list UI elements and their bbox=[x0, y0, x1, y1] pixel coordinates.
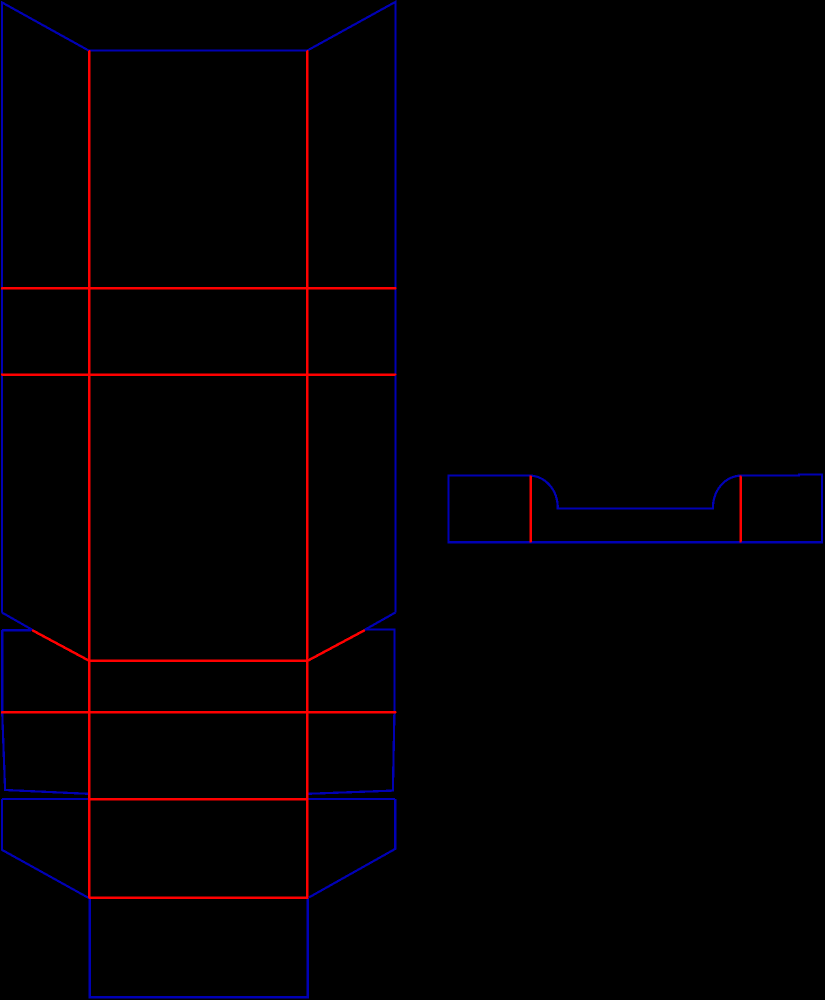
wire: right bevel cut bbox=[364, 613, 395, 631]
wire: tuck crease bbox=[89, 896, 307, 899]
wire: right crease vertical bbox=[306, 51, 309, 897]
wire: bottom panel top crease bbox=[89, 798, 307, 801]
wire: left crease vertical bbox=[88, 51, 91, 897]
wire: crease horizontal 3 bbox=[2, 711, 395, 714]
wire: left panel outer cut (top-left diagonal, left vertical) bbox=[2, 2, 89, 612]
wire: bottom panel top cut right bbox=[307, 798, 395, 800]
wire: top-right diagonal and right vertical cut bbox=[307, 2, 395, 613]
wire: bottom trapezoid left cut bbox=[2, 799, 89, 898]
wire: crease horizontal 1 bbox=[2, 287, 395, 290]
wire: handle strip left crease bbox=[529, 477, 532, 542]
wire: crash-lock middle crease bbox=[89, 660, 307, 663]
wire: bottom trapezoid right cut bbox=[309, 799, 395, 897]
wire: left dust flap outline bbox=[2, 630, 89, 794]
wire: bottom tuck flap cut bbox=[90, 898, 308, 997]
wire: left bevel cut bbox=[2, 613, 33, 631]
node: handle strip outline bbox=[449, 475, 822, 543]
wire: crease horizontal 2 bbox=[2, 373, 395, 376]
wire: crash-lock right diagonal crease bbox=[307, 631, 364, 661]
wire: top edge cut bbox=[89, 49, 308, 51]
wire: bottom panel top cut left bbox=[2, 798, 89, 800]
wire: right dust flap outline bbox=[308, 630, 394, 794]
wire: crash-lock left diagonal crease bbox=[33, 631, 89, 661]
wire: handle strip right crease bbox=[739, 477, 742, 542]
